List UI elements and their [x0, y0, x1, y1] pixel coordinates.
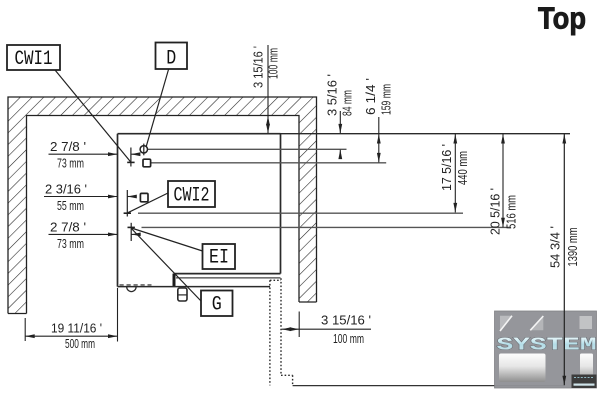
- svg-text:55 mm: 55 mm: [57, 198, 84, 213]
- appliance bottom edge: [118, 286, 271, 288]
- square connector S2: [140, 193, 148, 201]
- label box EI: [203, 244, 236, 270]
- label box G: [201, 291, 233, 317]
- svg-text:6 1/4 ': 6 1/4 ': [363, 78, 378, 115]
- grey connection line from CWI2 point: [138, 212, 463, 214]
- CWI1 point cross: [127, 148, 134, 167]
- svg-text:3 15/16 ': 3 15/16 ': [251, 46, 266, 88]
- grey connection line from D: [148, 148, 347, 150]
- grey connection line from square S1: [151, 162, 386, 164]
- appliance front second line: [176, 277, 281, 279]
- svg-text:500 mm: 500 mm: [65, 336, 95, 351]
- dimension 17 5/16 440mm: [454, 134, 456, 213]
- svg-text:54 3/4 ': 54 3/4 ': [548, 226, 563, 268]
- dotted drain duct: [270, 278, 293, 385]
- svg-text:2 3/16 ': 2 3/16 ': [45, 182, 87, 197]
- svg-text:2 7/8 ': 2 7/8 ': [50, 219, 86, 234]
- dimension 3 15/16 100mm bottom: [282, 328, 371, 330]
- appliance front upper line: [174, 273, 281, 275]
- wall left bottom cap: [8, 313, 27, 315]
- square connector S1: [143, 159, 151, 167]
- svg-text:1390 mm: 1390 mm: [565, 228, 580, 267]
- svg-text:440 mm: 440 mm: [455, 151, 470, 185]
- svg-text:516 mm: 516 mm: [504, 195, 519, 229]
- G barrel connector: [178, 288, 187, 301]
- wall hatched L-alcove fill: [8, 97, 317, 314]
- svg-text:73 mm: 73 mm: [57, 156, 84, 171]
- svg-text:CWI1: CWI1: [15, 48, 53, 71]
- svg-text:Top: Top: [538, 1, 586, 36]
- svg-text:CWI2: CWI2: [174, 185, 210, 208]
- D drain circle symbol: [140, 144, 147, 156]
- wall outer boundary: [8, 97, 317, 314]
- svg-text:100 mm: 100 mm: [266, 48, 281, 79]
- watermark logo: [495, 311, 597, 388]
- dimension 3 15/16 100mm top vertical: [267, 45, 269, 133]
- svg-text:159 mm: 159 mm: [379, 84, 394, 115]
- svg-text:20 5/16 ': 20 5/16 ': [488, 188, 503, 235]
- dimension 20 5/16 516mm: [502, 134, 504, 228]
- hidden dashed edge: [120, 284, 152, 286]
- bottom reference line y=385.6: [293, 385, 565, 387]
- label box CWI1: [7, 45, 60, 71]
- svg-text:SYSTEM: SYSTEM: [497, 336, 597, 356]
- dimension 3 5/16 84mm: [339, 111, 341, 133]
- leader D: [146, 70, 168, 147]
- svg-text:73 mm: 73 mm: [57, 236, 84, 251]
- leader CWI1: [55, 70, 131, 162]
- svg-text:84 mm: 84 mm: [340, 90, 355, 116]
- dimension 2 3/16 55mm: [44, 196, 136, 198]
- leader CWI2: [127, 193, 168, 213]
- svg-text:2 7/8 ': 2 7/8 ': [50, 139, 86, 154]
- svg-text:100 mm: 100 mm: [333, 331, 364, 346]
- svg-text:3 5/16 ': 3 5/16 ': [325, 74, 340, 116]
- svg-text:D: D: [166, 48, 176, 71]
- dimension 54 3/4 1390mm (drawn over logo): [563, 134, 565, 386]
- dimension 2 7/8 73mm upper: [49, 153, 140, 155]
- dimension 6 1/4 159mm: [378, 117, 380, 162]
- svg-text:19 11/16 ': 19 11/16 ': [51, 320, 102, 335]
- appliance step bar: [173, 274, 176, 287]
- svg-text:3 15/16 ': 3 15/16 ': [321, 313, 371, 328]
- leader G: [131, 229, 201, 302]
- dimension 19 11/16 500mm: [25, 335, 117, 337]
- dimension 2 7/8 73mm lower: [49, 233, 140, 235]
- label box CWI2: [168, 181, 215, 208]
- wall right bottom cap: [299, 301, 317, 303]
- leader EI: [131, 228, 202, 251]
- EI point cross: [128, 223, 135, 241]
- wall inner boundary: [27, 116, 300, 314]
- CWI2 point cross: [124, 190, 131, 217]
- appliance right edge: [280, 134, 282, 274]
- svg-text:17 5/16 ': 17 5/16 ': [439, 144, 454, 191]
- appliance top edge + extension line to right: [118, 133, 281, 135]
- foot bump: [127, 287, 136, 292]
- grey connection line from EI point: [142, 226, 511, 228]
- label box D: [156, 43, 188, 71]
- appliance left edge: [117, 134, 119, 287]
- svg-text:G: G: [212, 293, 222, 316]
- svg-text:EI: EI: [209, 247, 229, 270]
